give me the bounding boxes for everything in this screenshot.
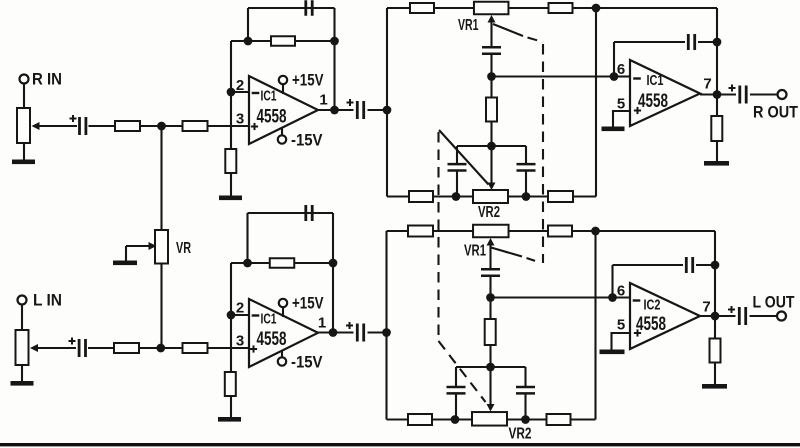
scan edge bar (bottom of photo) — [0, 443, 800, 446]
wire U3 output to C13 — [318, 331, 354, 333]
wire U1 feedback resistor rail — [231, 40, 335, 42]
wire L top rail to R16 — [387, 230, 474, 232]
wire VR1 wiper linkage diagonal — [493, 24, 523, 36]
capacitor C8 (R output coupling) — [740, 86, 746, 104]
junction node C — [383, 106, 392, 115]
svg-text:IC1: IC1 — [261, 89, 277, 105]
svg-text:2: 2 — [236, 77, 244, 94]
wire C13 to node F — [368, 331, 387, 333]
wire L VR2 rail right riser — [594, 231, 596, 420]
svg-text:1: 1 — [319, 92, 327, 109]
terminal L IN — [18, 296, 27, 305]
junction U3 pin 2 — [227, 311, 236, 320]
junction VR2 right — [522, 192, 531, 201]
resistor R19 (L output load) — [710, 339, 721, 363]
wire bridge to C6 top — [525, 146, 527, 164]
capacitor C16 (L bridge right) — [516, 387, 535, 393]
wire R19 to ground — [714, 363, 716, 385]
plus sign U1 — [251, 123, 258, 130]
svg-text:+15V: +15V — [292, 295, 324, 313]
minus sign U3 — [252, 314, 260, 316]
wire VR bottom to node B — [160, 264, 162, 349]
svg-text:5: 5 — [617, 317, 625, 334]
svg-text:1: 1 — [318, 315, 326, 332]
junction L top rail / riser — [591, 227, 600, 236]
plus sign U2 — [634, 107, 641, 114]
svg-text:VR1: VR1 — [464, 243, 486, 260]
svg-text:-15V: -15V — [291, 354, 323, 372]
wire node D to R8 — [490, 77, 492, 99]
wire U2 output to C8 — [700, 93, 736, 95]
wire bridge to C15 top — [455, 367, 457, 387]
wire C4 to node D — [490, 54, 492, 77]
wire U4 feedback cap left — [613, 264, 684, 266]
ground U4 pin 5 — [600, 350, 625, 355]
plus sign U3 — [250, 345, 257, 352]
P1 wiper arrow — [32, 122, 40, 130]
capacitor C6 (bridge right) — [517, 164, 536, 170]
wire node F riser (VR1/VR2 left rail) — [385, 231, 387, 420]
resistor R16 (L top rail left) — [408, 226, 433, 237]
junction L VR2 right — [521, 415, 530, 424]
wire U3 pin 2 stub — [231, 314, 249, 316]
junction L VR2 left — [451, 415, 460, 424]
svg-text:7: 7 — [702, 299, 710, 316]
ground R13 — [218, 417, 241, 422]
terminal L OUT — [777, 312, 786, 321]
op-amp U3 IC1 4558 (L input stage) — [249, 299, 318, 367]
wire VR2 wiper linkage diagonal — [439, 130, 489, 185]
resistor R12 — [183, 343, 208, 353]
wire top rail to R6 — [387, 7, 474, 9]
wire VR1 to feedback corner — [509, 7, 718, 9]
junction node F — [382, 328, 391, 337]
potentiometer VR2 (R bass) — [473, 190, 508, 203]
svg-text:4558: 4558 — [257, 329, 287, 350]
resistor R9 (R output load) — [711, 116, 722, 141]
capacitor C13 (U3 output coupling) — [357, 324, 363, 342]
wire node D to U2 pin 6 — [492, 75, 615, 77]
wire pot P1 wiper to C1 — [36, 125, 77, 127]
wire C2 loop left riser — [247, 8, 249, 41]
wire L VR1 wiper linkage diagonal — [491, 248, 522, 257]
wire pot P2 to ground — [21, 365, 23, 382]
node B junction — [156, 344, 165, 353]
junction U4 output — [711, 312, 720, 321]
plus sign U4 — [634, 329, 641, 336]
svg-text:3: 3 — [236, 333, 244, 350]
wire U2 pin 5 to ground — [613, 111, 630, 127]
svg-text:VR1: VR1 — [458, 17, 479, 34]
minus sign U2 — [633, 77, 641, 79]
junction node H — [486, 363, 495, 372]
resistor R7 (top rail right) — [549, 3, 573, 13]
svg-text:L IN: L IN — [33, 292, 62, 310]
resistor R13 (U3 gain set) — [225, 372, 236, 396]
wire U1 feedback right riser — [333, 8, 335, 110]
resistor R17 (L top rail right) — [548, 226, 572, 237]
wire U2 feedback right riser — [716, 8, 718, 95]
junction C12 left — [243, 259, 252, 268]
wire linkage dashed diagonal to L VR2 — [439, 341, 486, 402]
node A junction — [157, 122, 166, 131]
VR2 wiper arrow (L) — [487, 404, 495, 412]
svg-text:7: 7 — [703, 76, 711, 93]
capacitor C14 (L VR1 wiper) — [481, 269, 500, 275]
wire U2 feedback cap right — [698, 41, 717, 43]
wire R2 to op-amp pin 3 — [207, 125, 249, 127]
capacitor C3 (U1 output coupling) — [357, 101, 363, 119]
junction U2 output — [713, 90, 722, 99]
VR1 wiper arrow (R) — [488, 15, 496, 23]
ground P1 — [12, 160, 35, 165]
capacitor C4 (VR1 wiper) — [482, 47, 501, 53]
resistor R2 — [183, 121, 208, 131]
wire node H to L VR2 wiper — [489, 367, 491, 405]
capacitor C7 (U2 feedback) — [688, 34, 694, 50]
wire R3 to ground — [230, 172, 232, 197]
wire L VR1 linkage dashed tail — [527, 258, 541, 263]
wire U4 feedback cap right — [696, 264, 715, 266]
svg-text:VR: VR — [176, 240, 191, 257]
wire C11 to R11 — [88, 347, 114, 349]
wire U4 feedback drop to pin 6 — [611, 265, 613, 298]
wire R13 to ground — [230, 395, 232, 419]
VR wiper arrow — [149, 242, 157, 250]
junction U4 pin 6 — [608, 293, 617, 302]
svg-text:IC1: IC1 — [261, 312, 277, 328]
wire -15V stub U1 — [281, 129, 283, 136]
potentiometer VR1 (L treble) — [473, 225, 509, 238]
capacitor C1 (R input coupling) — [80, 117, 86, 135]
resistor R10 (VR2 rail right) — [548, 191, 573, 202]
wire L output node to R19 — [714, 316, 716, 339]
wire R8 to node E — [490, 121, 492, 146]
capacitor C18 (L output coupling) — [739, 307, 745, 325]
svg-text:L OUT: L OUT — [753, 294, 795, 312]
wire C14 to node G — [489, 277, 491, 298]
VR2 wiper arrow (R) — [488, 183, 496, 191]
wire U3 feedback resistor rail — [231, 262, 333, 264]
svg-text:4558: 4558 — [638, 91, 668, 112]
junction top rail / riser — [592, 4, 601, 13]
resistor R1 — [115, 121, 140, 131]
svg-text:R OUT: R OUT — [753, 104, 798, 122]
ground R9 — [704, 161, 729, 166]
wire +15V stub U1 — [282, 84, 284, 94]
junction VR2 left — [452, 192, 461, 201]
capacitor C11 (L input coupling) — [79, 339, 85, 357]
wire R11 to R12 — [139, 347, 183, 349]
svg-text:6: 6 — [617, 283, 625, 300]
potentiometer P1 (R input level) — [17, 108, 30, 143]
junction node D — [487, 72, 496, 81]
terminal +15V U3 — [279, 299, 287, 307]
terminal R IN — [20, 75, 29, 84]
resistor R15 (L VR2 rail left) — [408, 414, 432, 425]
resistor R4 (U1 feedback) — [271, 36, 295, 46]
svg-text:6: 6 — [617, 61, 625, 78]
wire U3 pin2 node down to R13 — [230, 263, 232, 373]
ground P2 — [11, 381, 34, 386]
junction U4 feedback cap — [711, 261, 720, 270]
ground U2 pin 5 — [602, 127, 625, 132]
capacitor C12 (U3 feedback) — [306, 205, 312, 221]
wire C15 to VR2 rail — [455, 393, 457, 419]
wire bridge to C16 top — [524, 367, 526, 387]
wire U1 pin2 node down to R3 — [230, 41, 232, 150]
wire U4 pin 6 stub — [613, 296, 631, 298]
wire VR wiper to ground stub — [126, 245, 152, 247]
wire C6 to VR2 rail — [525, 171, 527, 197]
terminal R OUT — [778, 90, 787, 99]
wire U4 output to C18 — [700, 315, 736, 317]
wire U1 pin 2 stub — [231, 91, 249, 93]
svg-text:4558: 4558 — [257, 107, 287, 128]
wire VR wiper ground drop — [125, 246, 127, 261]
capacitor C17 (U4 feedback) — [686, 257, 692, 273]
terminal -15V U3 — [278, 357, 286, 365]
wire -15V stub U3 — [281, 351, 283, 358]
resistor R5 (VR2 rail left) — [409, 191, 433, 202]
wire output node to R9 — [716, 95, 718, 118]
junction node G — [486, 293, 495, 302]
wire C8 to R-OUT terminal — [750, 93, 778, 95]
junction node E — [487, 142, 496, 151]
junction C2 left — [244, 37, 253, 46]
potentiometer VR1 (R treble) — [474, 2, 509, 15]
wire node A to VR top — [160, 126, 162, 230]
wire U4 feedback right riser — [714, 231, 716, 316]
svg-text:R IN: R IN — [32, 71, 62, 89]
svg-text:-15V: -15V — [291, 132, 323, 150]
wire C1 to R1 — [89, 125, 116, 127]
wire bridge rail node E — [457, 145, 526, 147]
terminal +15V U1 — [279, 76, 287, 84]
svg-text:IC2: IC2 — [644, 298, 661, 314]
potentiometer VR2 (L bass) — [472, 412, 507, 426]
wire R9 to ground — [716, 141, 718, 162]
ground VR wiper — [113, 261, 137, 266]
wire node E to VR2 wiper — [490, 146, 492, 183]
wire VR1 linkage diagonal dashed tail — [528, 38, 544, 43]
wire pot P2 wiper to C11 — [34, 347, 76, 349]
wire U2 feedback cap left — [614, 41, 685, 43]
resistor R3 (U1 gain set) — [225, 149, 236, 173]
wire +15V stub U3 — [282, 307, 284, 317]
ground R3 — [219, 196, 242, 201]
junction U2 pin 6 — [610, 72, 619, 81]
wire U2 pin 6 stub — [614, 75, 630, 77]
svg-text:VR2: VR2 — [478, 204, 500, 221]
capacitor C5 (bridge left) — [448, 164, 467, 170]
wire node G to R18 — [489, 298, 491, 321]
wire VR2 bottom rail — [387, 195, 596, 197]
wire R1 to R2 — [140, 125, 183, 127]
wire C16 to VR2 rail — [524, 393, 526, 419]
wire pot P1 to ground — [23, 143, 25, 161]
wire U2 feedback drop to pin 6 — [613, 42, 615, 77]
op-amp U1 IC1 4558 (R input stage) — [249, 76, 318, 144]
wire node G to U4 pin 6 — [491, 296, 613, 298]
capacitor C2 (U1 feedback) — [306, 0, 312, 16]
wire L VR1 to feedback corner — [509, 230, 716, 232]
wire ganged linkage dashed left — [437, 132, 439, 341]
capacitor C15 (L bridge left) — [447, 387, 466, 393]
op-amp U2 IC1 4558 (R output stage) — [630, 60, 700, 126]
junction R14 right — [329, 259, 338, 268]
wire VR2 rail right riser — [595, 8, 597, 197]
svg-text:4558: 4558 — [636, 314, 666, 335]
potentiometer VR (balance) — [155, 230, 168, 264]
terminal -15V U1 — [278, 135, 286, 143]
wire C18 to L-OUT terminal — [750, 315, 778, 317]
junction U2 feedback cap — [713, 38, 722, 47]
minus sign U4 — [633, 299, 641, 301]
wire VR1 wiper to C4 — [490, 19, 492, 47]
ground R19 — [702, 384, 727, 389]
resistor R14 (U3 feedback) — [270, 258, 295, 268]
op-amp U4 IC2 4558 (L output stage) — [630, 283, 700, 349]
potentiometer P2 (L input level) — [16, 330, 29, 365]
minus sign U1 — [252, 92, 260, 94]
junction U1 pin 2 — [227, 88, 236, 97]
resistor R8 (node D to node E) — [486, 98, 497, 122]
VR1 wiper arrow (L) — [487, 238, 495, 246]
svg-text:2: 2 — [236, 300, 244, 317]
wire L VR1 wiper to C14 — [489, 242, 491, 270]
wire L-IN terminal to pot P2 — [21, 305, 23, 331]
resistor R6 (top rail left) — [410, 3, 434, 13]
wire U3 feedback right riser — [332, 213, 334, 333]
wire U1 output to C3 — [318, 109, 354, 111]
wire C3 to node C — [368, 109, 388, 111]
wire C12 loop top rail — [248, 212, 334, 214]
wire C5 to VR2 rail — [456, 171, 458, 197]
wire C2 loop top rail — [248, 7, 335, 9]
wire ganged linkage dashed right — [542, 44, 544, 263]
junction U3 output — [329, 328, 338, 337]
svg-text:+15V: +15V — [292, 72, 324, 90]
junction R4 right — [330, 37, 339, 46]
svg-text:3: 3 — [236, 111, 244, 128]
junction U1 output — [330, 106, 339, 115]
resistor R18 (node G to node H) — [485, 319, 496, 345]
wire R-IN terminal to pot P1 — [23, 84, 25, 109]
wire R12 to op-amp pin 3 — [207, 347, 249, 349]
wire node C riser (VR1/VR2 left rail) — [386, 8, 388, 197]
wire L VR2 bottom rail — [387, 418, 596, 420]
wire bridge to C5 top — [456, 146, 458, 164]
svg-text:VR2: VR2 — [509, 426, 532, 443]
P2 wiper arrow — [30, 344, 38, 352]
wire bridge rail node H — [456, 366, 526, 368]
wire U4 pin 5 to ground — [612, 333, 631, 350]
resistor R11 — [114, 343, 139, 353]
wire C12 loop left riser — [246, 213, 248, 263]
svg-text:IC1: IC1 — [647, 73, 664, 89]
wire R18 to node H — [489, 344, 491, 367]
svg-text:5: 5 — [617, 96, 625, 113]
resistor R20 (L VR2 rail right) — [547, 414, 571, 425]
